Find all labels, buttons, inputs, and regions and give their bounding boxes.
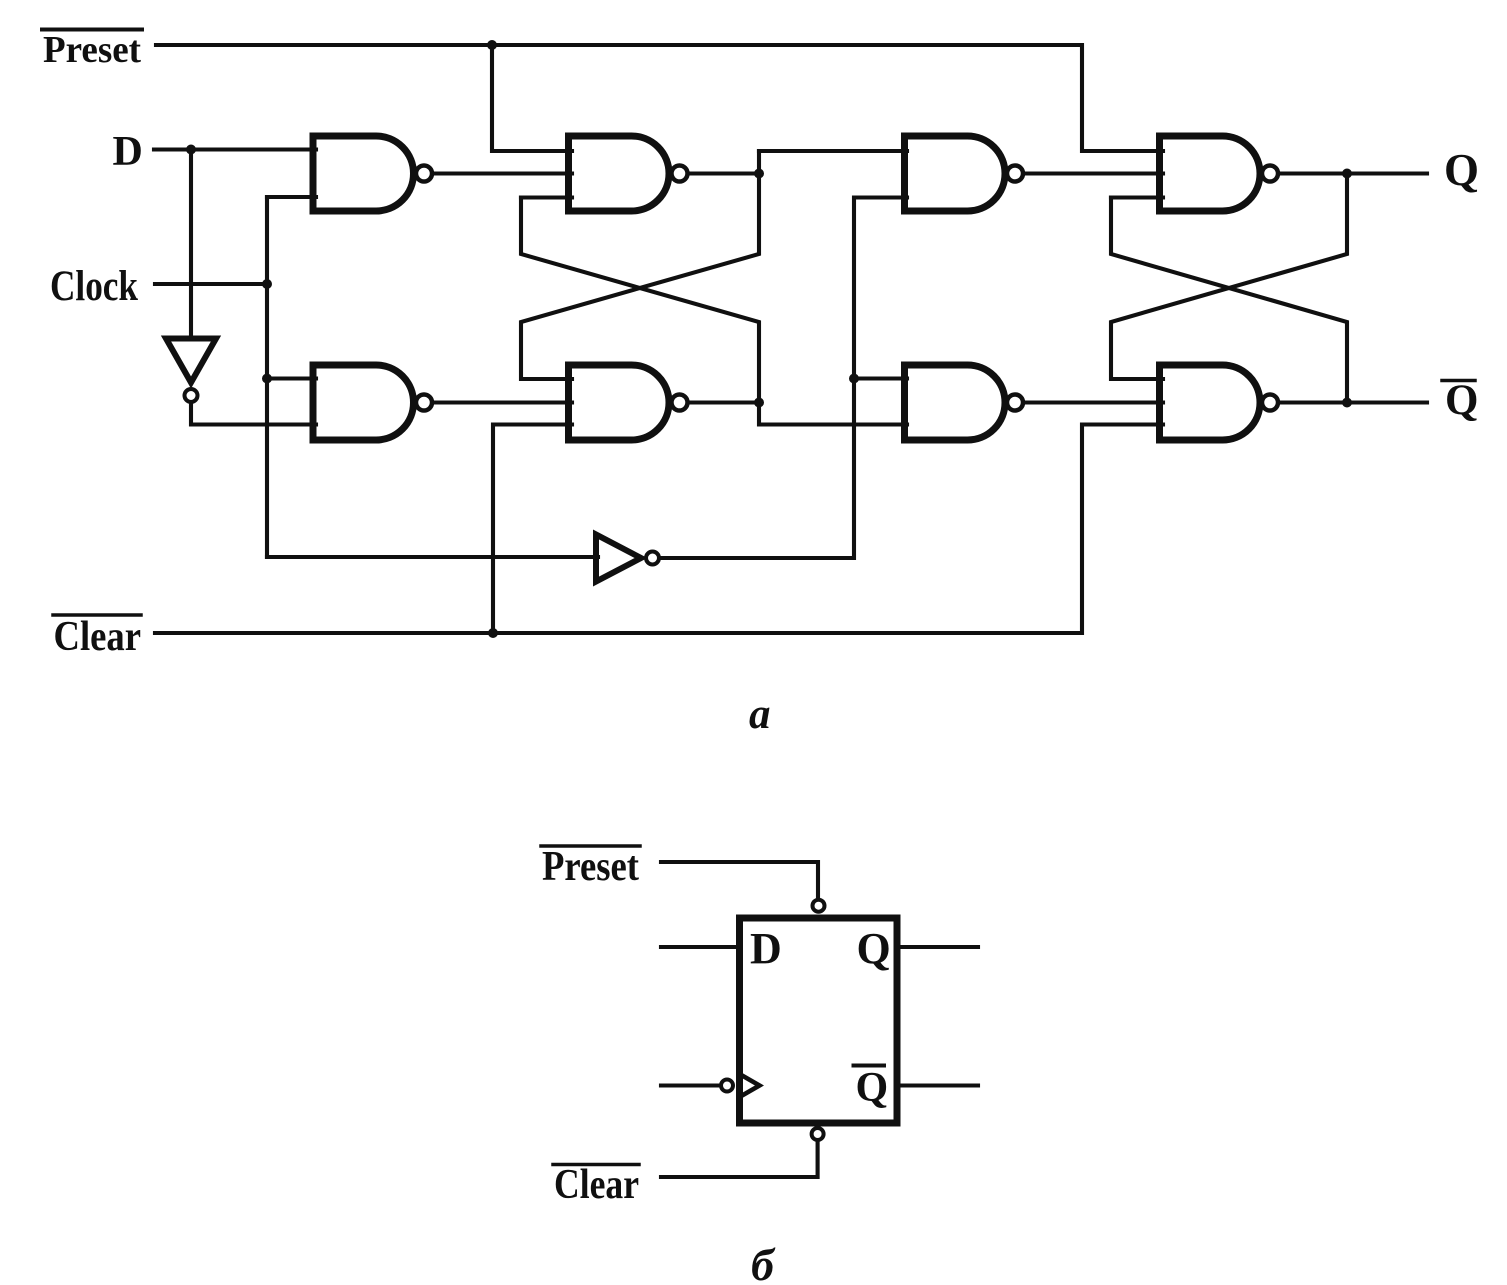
bubble clock input part b [721, 1080, 733, 1092]
clock chevron part b [743, 1076, 760, 1095]
wire right cross diagonal down-left to G8 pin 1 [1111, 174, 1347, 380]
NAND gate G7 output bubble [1007, 395, 1023, 411]
node Clock-G3 junction [262, 374, 272, 384]
NAND gate G3 output bubble [416, 395, 432, 411]
bubble preset input part b [813, 900, 825, 912]
flip-flop U3 body box [740, 918, 898, 1123]
wire G5 output to G6 [1026, 171, 1163, 175]
wire Clock junction to G3 pin 1 [267, 376, 316, 380]
NAND gate G4 body [569, 365, 670, 440]
node Clear junction [488, 628, 498, 638]
pin D label part b [750, 924, 782, 973]
wire Clock input [155, 282, 267, 286]
svg-text:Clear: Clear [54, 614, 142, 660]
overline of Preset [42, 28, 142, 32]
pin Q label part b [857, 924, 891, 973]
node Qbar junction [1342, 398, 1352, 408]
NAND gate G1 body [313, 136, 414, 211]
wire Preset part b [661, 862, 818, 897]
inverter U2 output bubble [646, 552, 659, 565]
wire Preset main run to right corner down to G6 [156, 45, 1163, 151]
bubble clear input part b [812, 1128, 824, 1140]
wire G8 output to Qbar [1281, 400, 1427, 404]
figure label b [751, 1239, 776, 1285]
wire G2 output to cross node [691, 171, 759, 175]
svg-text:Q: Q [1445, 377, 1478, 424]
wire U1 output to G3 pin 2 [191, 404, 316, 425]
wire D input part b [661, 945, 737, 949]
wire clock input part b [661, 1083, 719, 1087]
net Qbar label [1445, 377, 1478, 424]
net D label [113, 129, 143, 175]
wire G6 output to Q [1281, 171, 1427, 175]
NAND gate G4 output bubble [672, 395, 688, 411]
NAND gate G6 body [1160, 136, 1261, 211]
net Preset label part b [542, 844, 639, 890]
wire U2 output up to G5 pin 2 [661, 198, 907, 559]
svg-text:a: a [749, 691, 771, 738]
wire Clear branch up to G4 pin 2 [493, 425, 572, 634]
wire G7 output to G8 [1026, 400, 1163, 404]
wire U2 junction to G7 pin 1 [854, 376, 907, 380]
node U2 output junction to G7 [849, 374, 859, 384]
wire left cross upper to G2 pin 3 [521, 195, 572, 199]
inverter U1 output bubble [185, 389, 198, 402]
pin Qbar label part b [856, 1065, 889, 1111]
net Clear label [54, 614, 142, 660]
svg-text:Q: Q [856, 1065, 889, 1111]
svg-text:б: б [751, 1239, 776, 1285]
wire left cross top corner to G5 pin 1 [759, 149, 907, 153]
overline of pin Qbar part b [854, 1064, 885, 1068]
inverter U1 clock inverter pointing down [166, 339, 216, 383]
NAND gate G6 output bubble [1262, 166, 1278, 182]
svg-text:Q: Q [1444, 145, 1479, 195]
NAND gate G5 body [905, 136, 1006, 211]
wire Qbar output part b [898, 1083, 978, 1087]
wire Clear part b [661, 1142, 818, 1177]
svg-text:Clear: Clear [554, 1162, 639, 1208]
node G4 output junction [754, 398, 764, 408]
wire G4 output to cross node [691, 400, 759, 404]
node Clock junction [262, 279, 272, 289]
figure label a [749, 691, 771, 738]
svg-text:Q: Q [857, 924, 891, 973]
wire G1 output to G2 [434, 171, 572, 175]
svg-text:D: D [750, 924, 782, 973]
net Clear label part b [554, 1162, 639, 1208]
NAND gate G2 body [569, 136, 670, 211]
svg-text:Preset: Preset [43, 29, 141, 71]
net Preset label [43, 29, 141, 71]
svg-text:Preset: Preset [542, 844, 639, 890]
overline of Clear part b [553, 1163, 639, 1167]
wire D input [154, 147, 316, 151]
NAND gate G1 output bubble [416, 166, 432, 182]
node D junction [186, 145, 196, 155]
svg-text:D: D [113, 129, 143, 175]
net Q label [1444, 145, 1479, 195]
inverter U2 mid inverter pointing right [596, 535, 641, 582]
wire Clock trunk to inverter U2 input [267, 555, 598, 559]
wire Clear main run to right corner up to G8 pin 2 [155, 425, 1163, 634]
wire D vertical to inverter U1 [189, 150, 193, 339]
wire left cross diagonal down-right to G7 pin 3 [521, 198, 907, 425]
node G2 output junction [754, 169, 764, 179]
overline of Qbar [1442, 379, 1475, 383]
NAND gate G8 body [1160, 365, 1261, 440]
NAND gate G8 output bubble [1262, 395, 1278, 411]
wire Q output part b [898, 945, 978, 949]
wire right cross diagonal down-right from G6 pin3 branch [1111, 198, 1347, 403]
node Q junction [1342, 169, 1352, 179]
NAND gate G7 body [905, 365, 1006, 440]
NAND gate G2 output bubble [672, 166, 688, 182]
net Clock label [50, 263, 138, 310]
wire Clock to G1 pin 2 [267, 195, 316, 199]
node Preset junction [487, 40, 497, 50]
NAND gate G3 body [313, 365, 414, 440]
NAND gate G5 output bubble [1007, 166, 1023, 182]
wire right cross upper to G6 pin 3 [1111, 195, 1163, 199]
wire left cross diagonal down-left to G4 pin 1 [521, 151, 759, 379]
wire G3 output to G4 [434, 400, 572, 404]
svg-text:Clock: Clock [50, 263, 138, 310]
overline of Preset part b [541, 844, 640, 848]
wire Clock vertical trunk [265, 197, 269, 557]
overline of Clear [53, 613, 141, 617]
wire Preset branch to G2 [492, 45, 572, 151]
